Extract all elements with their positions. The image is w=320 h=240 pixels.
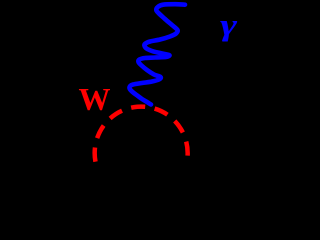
wire: outgoing fermion line <box>187 153 268 185</box>
boson W: red dashed loop arc <box>95 107 188 164</box>
Feynman diagram: W-boson loop with photon emission <box>0 0 278 197</box>
label W (red) <box>79 83 111 115</box>
wire: internal fermion propagator <box>95 151 187 155</box>
photon gamma: blue wavy line <box>129 4 185 104</box>
label gamma (blue) <box>220 9 237 40</box>
wire: incoming fermion line (black, hidden on black background) <box>10 153 268 185</box>
